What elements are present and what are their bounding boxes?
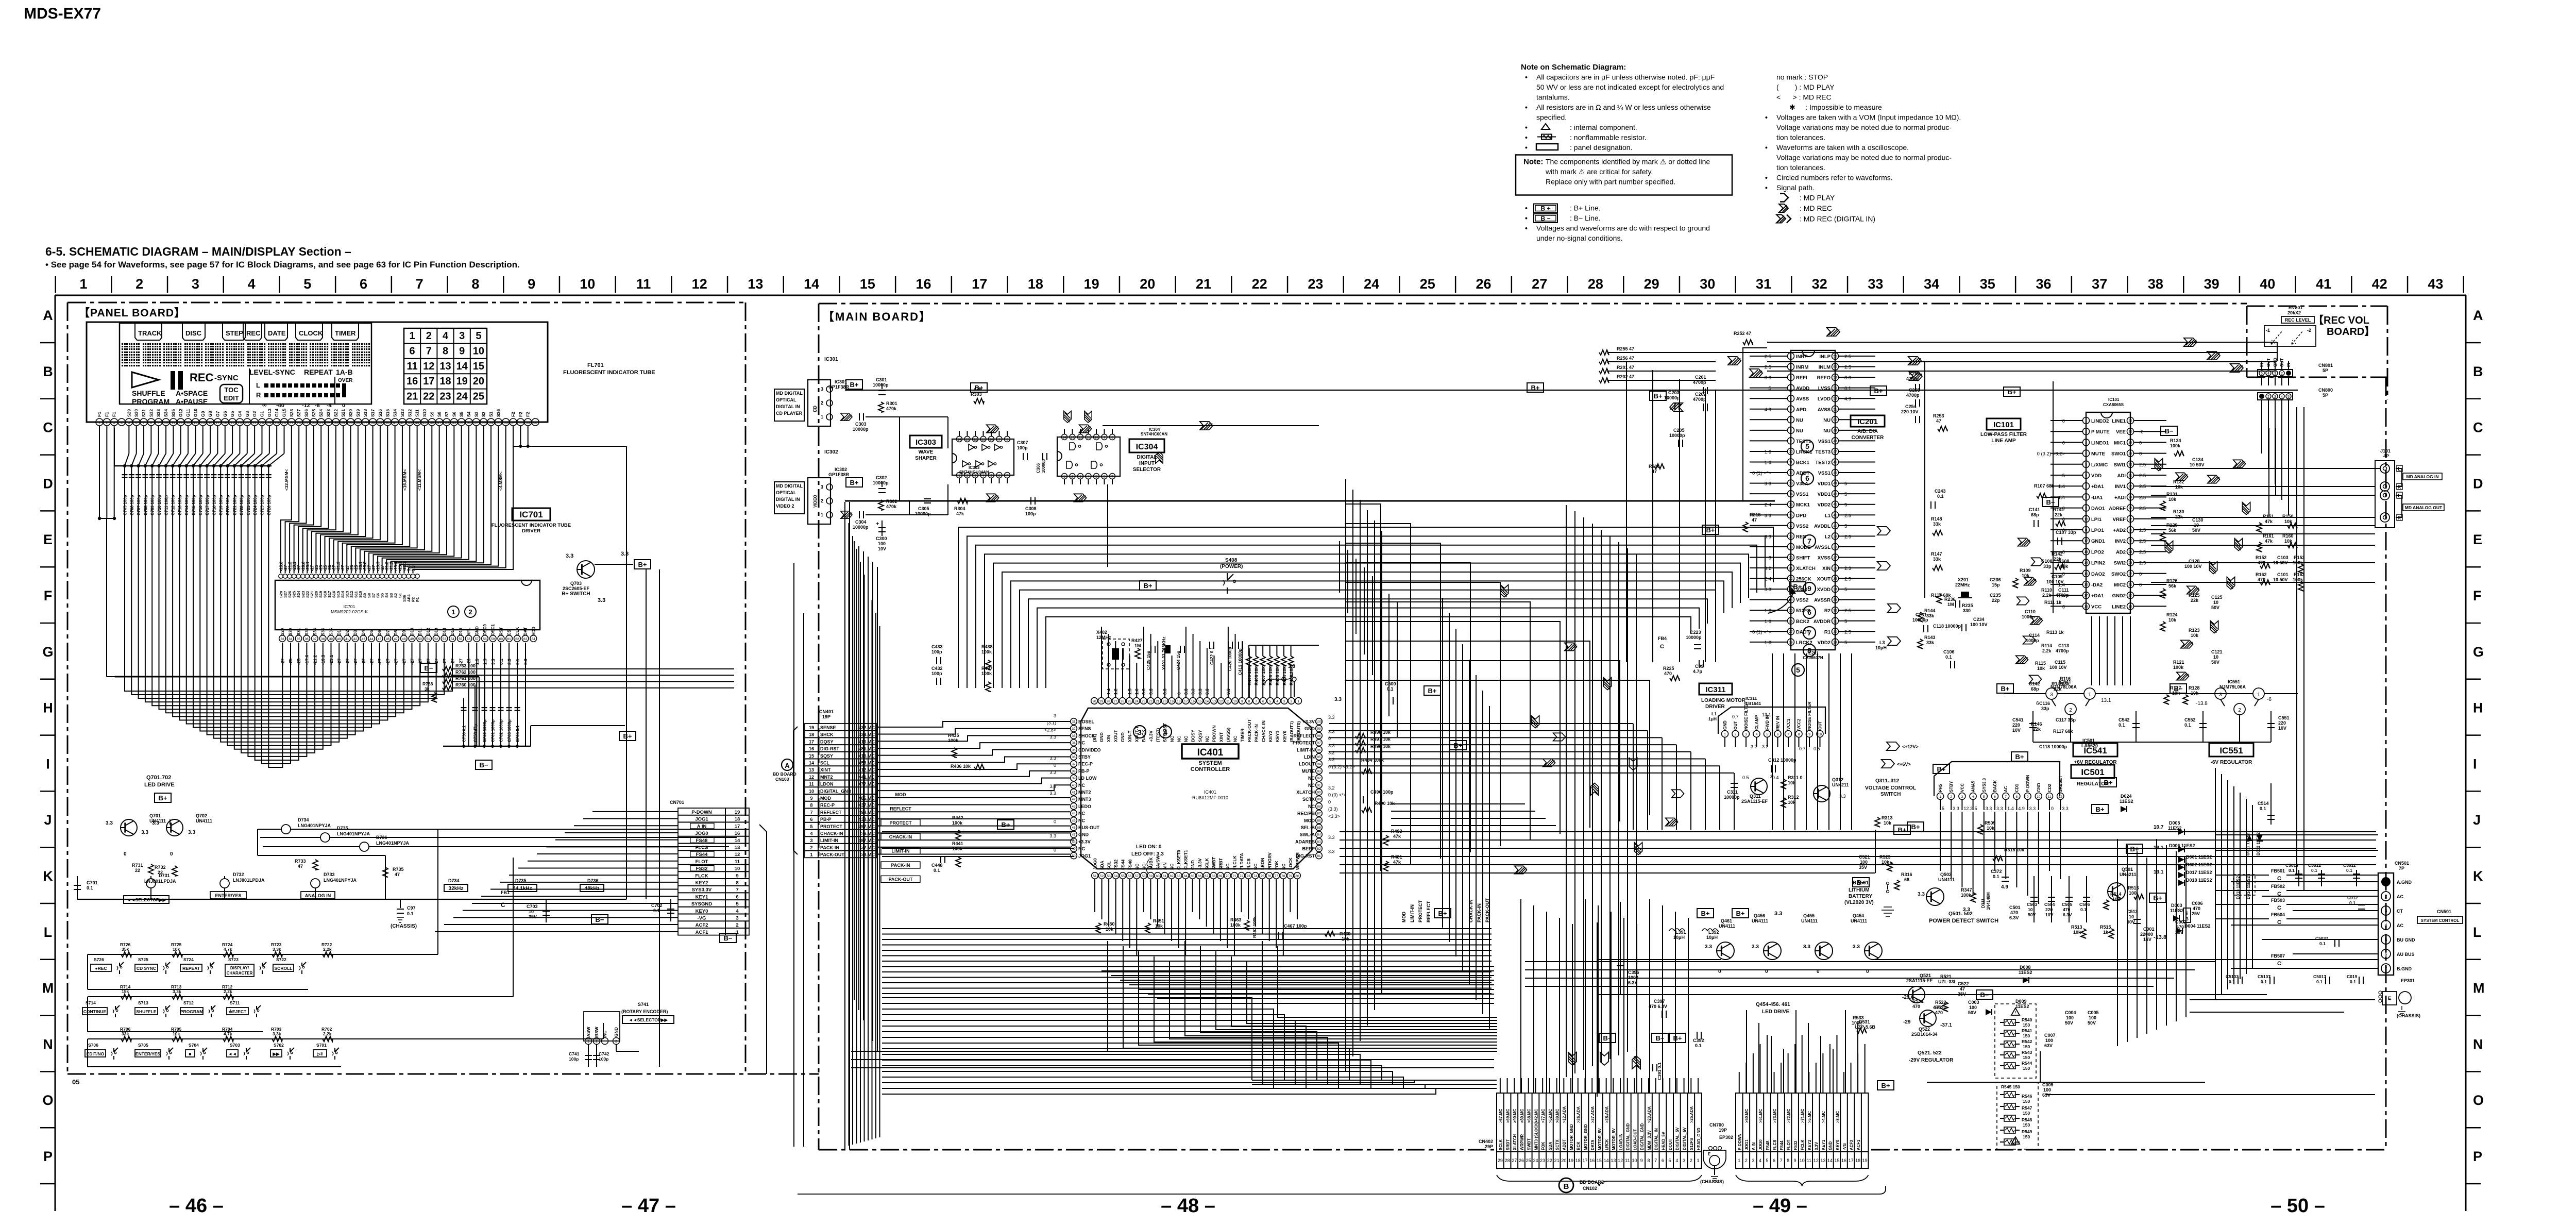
svg-text:C: C: [2277, 876, 2281, 882]
svg-text:3: 3: [1769, 555, 1771, 561]
svg-text:36: 36: [1072, 755, 1076, 759]
svg-text:S703: S703: [230, 1043, 240, 1048]
svg-text:>68.MC: >68.MC: [1527, 1109, 1532, 1123]
svg-text:>81.MC: >81.MC: [858, 746, 875, 751]
F2 filament wires: [513, 426, 514, 446]
svg-text:67: 67: [1205, 875, 1209, 878]
svg-text:5: 5: [2062, 473, 2065, 479]
svg-text:UN4111: UN4111: [1719, 923, 1735, 929]
svg-text:2.5: 2.5: [1844, 534, 1851, 540]
svg-text:SCTX: SCTX: [1555, 1139, 1560, 1150]
svg-text:– 46 –: – 46 –: [169, 1195, 224, 1217]
svg-text:IC302: IC302: [824, 449, 838, 455]
svg-text:CHACK-IN: CHACK-IN: [889, 834, 912, 839]
IC401 right pins 100-81: [1316, 718, 1323, 725]
svg-text:K: K: [2473, 868, 2483, 884]
svg-text:6: 6: [1807, 608, 1811, 616]
svg-text:6: 6: [410, 345, 415, 357]
resistor R723: [272, 952, 282, 957]
svg-text:10: 10: [2213, 600, 2218, 605]
svg-text:IC541: IC541: [2059, 679, 2071, 684]
IC201 A/D D/A converter body: [1791, 350, 1835, 650]
svg-text:12: 12: [1079, 436, 1082, 440]
B+ arrow: [1768, 591, 1794, 613]
svg-text:BD BOARD: BD BOARD: [773, 771, 796, 777]
svg-text:15: 15: [860, 276, 875, 292]
svg-text:53: 53: [1833, 387, 1837, 390]
svg-text:3k: 3k: [425, 686, 430, 692]
svg-text:0: 0: [124, 851, 127, 857]
svg-text:C742: C742: [599, 1051, 609, 1056]
svg-text:38: 38: [2148, 276, 2163, 292]
svg-text:23: 23: [1540, 1158, 1545, 1163]
svg-text:3: 3: [821, 387, 823, 392]
svg-text:27: 27: [1512, 1158, 1517, 1163]
svg-text:0.1: 0.1: [2261, 979, 2267, 984]
svg-text:FB4: FB4: [1658, 636, 1667, 641]
svg-text:100p: 100p: [1025, 511, 1036, 516]
svg-text:16: 16: [916, 276, 931, 292]
svg-text:LDOUT: LDOUT: [1299, 762, 1315, 767]
svg-text:60: 60: [533, 422, 537, 425]
svg-text:G13: G13: [267, 409, 272, 417]
svg-text:FLUORESCENT INDICATOR TUBE: FLUORESCENT INDICATOR TUBE: [563, 370, 655, 376]
svg-text:2.2k: 2.2k: [224, 989, 232, 994]
svg-text:KEY1: KEY1: [696, 894, 709, 900]
svg-text:•: •: [1765, 174, 1768, 182]
panel right-side vertical bus: [626, 563, 627, 899]
svg-text:AVDDR: AVDDR: [1814, 619, 1831, 625]
svg-text:10k: 10k: [1884, 820, 1892, 826]
LED D735 44.1kHz: [320, 833, 330, 842]
svg-text:9: 9: [158, 422, 160, 425]
svg-text:B+: B+: [1911, 823, 1920, 831]
safety note box: [1516, 155, 1732, 195]
svg-text:C303: C303: [855, 422, 867, 427]
svg-text:8: 8: [2016, 795, 2018, 799]
svg-text:DIGITAL_5V: DIGITAL_5V: [1682, 1127, 1687, 1150]
svg-text:0: 0: [2139, 440, 2142, 446]
svg-text:LINE2: LINE2: [2112, 604, 2126, 610]
nonflammable resistor R542: [2004, 1041, 2015, 1047]
svg-text:MSM9202-02GS-K: MSM9202-02GS-K: [331, 609, 368, 614]
svg-text:R541: R541: [2022, 1028, 2032, 1033]
svg-text:XIN: XIN: [1822, 566, 1831, 572]
svg-text:470k: 470k: [886, 406, 897, 411]
svg-text:【REC VOL: 【REC VOL: [2313, 314, 2369, 326]
svg-text:4: 4: [443, 330, 449, 342]
svg-text:2.5: 2.5: [2139, 528, 2146, 533]
svg-text:NC: NC: [1141, 864, 1146, 870]
svg-text:33k: 33k: [1933, 522, 1941, 527]
svg-text:15p: 15p: [1992, 582, 2000, 587]
svg-text:Q522: Q522: [1919, 1027, 1930, 1032]
transistor Q703 B+ switch: [577, 561, 595, 578]
svg-text:0: 0: [2062, 440, 2065, 446]
svg-text:SA/SW: SA/SW: [1155, 855, 1160, 870]
svg-text:BOSEL: BOSEL: [1078, 719, 1095, 725]
svg-text:42: 42: [353, 637, 358, 641]
svg-text:8: 8: [1787, 1158, 1789, 1163]
svg-text:35: 35: [297, 637, 301, 641]
svg-text:-37.1: -37.1: [1940, 1022, 1952, 1028]
svg-text:Waveforms are taken with a osc: Waveforms are taken with a oscilloscope.: [1776, 143, 1909, 152]
svg-text:R124: R124: [2166, 612, 2178, 617]
svg-text:15: 15: [809, 753, 814, 759]
IC401 system controller body: [1081, 708, 1312, 869]
svg-text:48kHz: 48kHz: [585, 886, 600, 892]
svg-text:+3.3V: +3.3V: [1078, 839, 1091, 844]
svg-text:74: 74: [1253, 875, 1258, 878]
svg-text:C003: C003: [1968, 1000, 1979, 1005]
B+ box IC302: [846, 478, 862, 487]
svg-text:C118 10000p: C118 10000p: [1933, 624, 1961, 629]
svg-text:JOG0: JOG0: [1093, 858, 1098, 870]
svg-text:19: 19: [735, 810, 740, 815]
power rail rows K-L right half: [1525, 961, 2215, 962]
svg-text:5: 5: [1844, 524, 1847, 529]
svg-text:SHAPER: SHAPER: [915, 456, 937, 461]
svg-text:13: 13: [186, 422, 190, 425]
svg-text:DIGITAL IN: DIGITAL IN: [776, 497, 800, 502]
svg-text:12: 12: [1219, 700, 1223, 703]
svg-text:LA5620: LA5620: [2081, 743, 2098, 748]
svg-text:XVSS: XVSS: [1818, 555, 1831, 561]
svg-text:C724 100p: C724 100p: [253, 495, 258, 515]
svg-text:LNG401NPYJA: LNG401NPYJA: [337, 831, 370, 836]
svg-text:IC701: IC701: [344, 604, 355, 609]
svg-text:B+: B+: [2130, 845, 2139, 853]
svg-text:7: 7: [1654, 1158, 1657, 1163]
svg-text:13: 13: [1789, 482, 1793, 485]
svg-text:BOARD】: BOARD】: [2327, 326, 2375, 338]
svg-text:50V: 50V: [2211, 660, 2219, 665]
svg-text:-27: -27: [450, 658, 455, 665]
capacitor C719 100p: [219, 464, 222, 467]
svg-text:35V: 35V: [529, 914, 537, 919]
svg-text:S723: S723: [228, 957, 239, 962]
svg-text:FB502: FB502: [2271, 884, 2285, 889]
svg-text:FS48: FS48: [1766, 1140, 1770, 1150]
svg-text:S35: S35: [171, 409, 176, 417]
svg-text:10000p: 10000p: [1669, 433, 1685, 438]
svg-text:<4.MSM<: <4.MSM<: [498, 472, 503, 491]
svg-text:-25: -25: [288, 658, 293, 665]
svg-text:5P: 5P: [2323, 368, 2328, 373]
svg-text:!: !: [2015, 1011, 2016, 1015]
svg-text:CD PLAYER: CD PLAYER: [776, 411, 803, 416]
resistor R705: [172, 1036, 182, 1042]
svg-text:IC551: IC551: [2228, 679, 2240, 684]
svg-text:MD DIGITAL: MD DIGITAL: [776, 391, 803, 396]
svg-text:J: J: [2473, 812, 2481, 828]
svg-text:100: 100: [2089, 1015, 2096, 1020]
svg-text:+3.3V: +3.3V: [1197, 858, 1202, 870]
svg-text:-13.8: -13.8: [2196, 701, 2208, 707]
svg-text:C: C: [2277, 961, 2281, 967]
svg-text:FCLK: FCLK: [1801, 1139, 1805, 1150]
svg-text:54: 54: [451, 637, 455, 641]
svg-text:G2: G2: [252, 411, 257, 417]
svg-text:50: 50: [418, 637, 422, 641]
svg-text:B +: B +: [1540, 205, 1550, 212]
wires IC304 to right: [1103, 425, 1319, 426]
svg-text:C716 100p: C716 100p: [198, 495, 203, 515]
svg-text:45: 45: [1833, 472, 1837, 475]
svg-text:CN701: CN701: [670, 800, 684, 805]
svg-text:FS48: FS48: [1127, 859, 1132, 870]
svg-text:-27: -27: [401, 658, 406, 665]
svg-text:R758: R758: [422, 681, 433, 686]
svg-text:!: !: [2015, 1139, 2016, 1144]
+12V +6V arrows: [1887, 742, 1900, 750]
svg-text:LINE AMP: LINE AMP: [1991, 438, 2016, 444]
svg-text:3: 3: [821, 484, 823, 490]
svg-text:100: 100: [2045, 1038, 2053, 1043]
svg-text:IC302: IC302: [835, 467, 847, 472]
svg-text:C205: C205: [1673, 428, 1685, 433]
svg-text:17: 17: [972, 276, 987, 292]
svg-text:AUBK: AUBK: [1148, 857, 1154, 870]
svg-text:PB-P: PB-P: [1078, 768, 1090, 774]
svg-text:13: 13: [1611, 1158, 1616, 1163]
svg-text:C717 100p: C717 100p: [205, 495, 210, 515]
svg-text:E: E: [2473, 532, 2482, 547]
svg-text:3.2: 3.2: [1328, 757, 1335, 762]
svg-text:R143: R143: [1924, 635, 1936, 640]
svg-text:MD DIGITAL: MD DIGITAL: [776, 483, 803, 489]
svg-text:17: 17: [1184, 700, 1188, 703]
svg-text:A.GND: A.GND: [2397, 880, 2412, 885]
svg-text:PBOWN: PBOWN: [1212, 725, 1217, 742]
svg-text:R114: R114: [2041, 643, 2052, 648]
svg-text:B+: B+: [2096, 805, 2105, 813]
svg-text:25: 25: [473, 391, 484, 402]
svg-text:R732: R732: [155, 865, 166, 870]
svg-text:LOCK: LOCK: [1288, 857, 1293, 870]
LED D736 48kHz: [360, 842, 369, 851]
svg-text:4.7p: 4.7p: [1693, 669, 1703, 674]
svg-text:VCC1: VCC1: [1786, 718, 1791, 730]
svg-text:C741: C741: [569, 1051, 580, 1056]
svg-text:B+: B+: [850, 381, 859, 389]
svg-text:OPTICAL: OPTICAL: [776, 490, 796, 495]
svg-text:C113: C113: [2058, 643, 2069, 648]
svg-text:LVDD: LVDD: [1818, 396, 1831, 402]
nested corners right of IC401: [1346, 504, 1381, 871]
svg-text:C106: C106: [1943, 649, 1955, 654]
svg-text:0: 0: [1328, 799, 1331, 804]
svg-text:•: •: [1765, 143, 1768, 152]
svg-text:C712 100p: C712 100p: [171, 495, 176, 515]
svg-text:R144: R144: [1924, 608, 1936, 613]
svg-text:CLK: CLK: [515, 627, 520, 635]
svg-text:9: 9: [1807, 584, 1811, 593]
svg-text:•: •: [1525, 123, 1528, 131]
svg-text:•: •: [1525, 214, 1528, 222]
svg-text:•: •: [1525, 224, 1528, 232]
svg-text:REV IN: REV IN: [1776, 716, 1781, 730]
svg-text:VDD2: VDD2: [1818, 640, 1831, 646]
svg-text:C391 0.1: C391 0.1: [1657, 1062, 1662, 1080]
svg-text:10000p: 10000p: [1724, 795, 1740, 800]
switch row 2 resistor rail: [88, 996, 244, 997]
svg-text:2: 2: [106, 422, 108, 425]
svg-text:3.3: 3.3: [1288, 664, 1295, 669]
svg-text:SWO1: SWO1: [2111, 451, 2126, 457]
svg-text:2.5: 2.5: [2139, 484, 2146, 490]
svg-text:0.4: 0.4: [1772, 775, 1779, 780]
display tube pin row 1-60: [96, 418, 103, 426]
svg-text:11: 11: [2048, 795, 2052, 799]
svg-text:R509: R509: [1985, 820, 1996, 826]
svg-text:1000p: 1000p: [2026, 638, 2039, 643]
svg-text:17: 17: [2084, 594, 2088, 598]
svg-text:SYSGND: SYSGND: [691, 901, 712, 907]
svg-text:R463: R463: [1230, 917, 1242, 922]
svg-text:D6: D6: [378, 630, 382, 635]
R303: [974, 398, 984, 404]
svg-text:0.1: 0.1: [2289, 868, 2295, 873]
svg-text:10: 10: [473, 345, 484, 357]
svg-text:33: 33: [334, 422, 338, 425]
svg-text:12: 12: [1814, 1158, 1819, 1163]
svg-text:DRIVER: DRIVER: [522, 528, 540, 534]
svg-text:tion tolerances.: tion tolerances.: [1776, 163, 1825, 172]
svg-text:C392: C392: [1693, 1038, 1704, 1043]
svg-text:99: 99: [1317, 727, 1321, 731]
svg-text:22p: 22p: [1992, 598, 2000, 603]
svg-text:2: 2: [2267, 395, 2269, 399]
svg-text:1.6: 1.6: [1765, 449, 1771, 455]
svg-text:48: 48: [1833, 440, 1837, 443]
svg-text:-13.8: -13.8: [2154, 934, 2166, 941]
svg-text:LINEO1: LINEO1: [2091, 440, 2109, 446]
svg-text:100k: 100k: [2173, 665, 2184, 670]
svg-text:D733: D733: [324, 872, 335, 877]
svg-text:220: 220: [2045, 907, 2053, 912]
svg-text:REC-P: REC-P: [1078, 762, 1093, 767]
svg-text:23: 23: [1308, 276, 1323, 292]
svg-text:11: 11: [1625, 1158, 1630, 1163]
svg-text:37: 37: [363, 422, 367, 425]
svg-text:MUTE: MUTE: [1302, 768, 1315, 774]
svg-text:55: 55: [459, 637, 463, 641]
svg-text:50V: 50V: [2028, 912, 2036, 917]
svg-text:C130: C130: [2192, 517, 2204, 523]
safety resistor block 1: [1995, 1004, 2036, 1078]
svg-text:0.1: 0.1: [2350, 979, 2356, 984]
svg-text:S17: S17: [370, 409, 376, 417]
svg-text:NOISE FILTER: NOISE FILTER: [1744, 701, 1749, 730]
svg-text:D009: D009: [2015, 999, 2027, 1004]
svg-text:0.1: 0.1: [1844, 386, 1851, 392]
svg-text:5: 5: [303, 276, 311, 292]
svg-text:R132: R132: [2173, 479, 2184, 484]
svg-text:C019: C019: [2347, 974, 2358, 979]
wires CN401 to IC401: [877, 727, 922, 728]
svg-text:100k: 100k: [952, 820, 963, 826]
svg-text:1: 1: [736, 930, 739, 935]
svg-text:19: 19: [1862, 1158, 1868, 1163]
svg-text:51: 51: [426, 637, 430, 641]
svg-text:FLCLK: FLCLK: [1232, 855, 1238, 870]
capacitor C715 100p: [192, 464, 195, 467]
svg-text:27: 27: [2128, 517, 2132, 521]
IC201 surrounding wiring box: [1743, 348, 1767, 501]
IC541 +6V regulator: [1997, 684, 2013, 693]
svg-text:30: 30: [2128, 485, 2132, 489]
svg-text:SCLK: SCLK: [1499, 1139, 1503, 1150]
svg-text:CD/VIDEO: CD/VIDEO: [1078, 747, 1101, 752]
svg-text:: MD REC: : MD REC: [1800, 204, 1832, 212]
svg-text:PACK-OUT: PACK-OUT: [889, 877, 913, 882]
svg-text:NC: NC: [1253, 864, 1258, 870]
svg-text:3.3: 3.3: [1328, 849, 1335, 854]
svg-text:C117 33p: C117 33p: [2056, 717, 2076, 723]
svg-text:KEY1: KEY1: [1275, 731, 1280, 742]
svg-text:OSC1: OSC1: [491, 624, 496, 635]
svg-text:CD1: CD1: [2014, 783, 2019, 792]
svg-text:5: 5: [1844, 619, 1847, 625]
svg-text:10V: 10V: [878, 546, 886, 551]
svg-text:R442: R442: [952, 815, 963, 820]
svg-text:2: 2: [2085, 430, 2087, 434]
svg-text:R256 47: R256 47: [1617, 356, 1634, 361]
svg-text:C760 1000p: C760 1000p: [483, 719, 487, 742]
svg-text:150: 150: [2023, 1122, 2030, 1128]
svg-text:4: 4: [1790, 387, 1792, 390]
IC551 to CN501 vertical bundle: [2117, 839, 2118, 1046]
svg-text:29: 29: [1498, 1158, 1503, 1163]
svg-text:29: 29: [2128, 496, 2132, 499]
svg-text:– 48 –: – 48 –: [1161, 1195, 1215, 1217]
svg-text:60: 60: [499, 637, 503, 641]
svg-text:: internal component.: : internal component.: [1570, 123, 1637, 131]
svg-text:G14: G14: [274, 409, 279, 417]
svg-text:2: 2: [821, 498, 823, 503]
svg-text:R215: R215: [1750, 512, 1761, 517]
svg-text:Q456: Q456: [1754, 913, 1765, 918]
svg-text:51: 51: [1093, 875, 1097, 878]
svg-text:62: 62: [515, 637, 519, 641]
C303: [859, 413, 860, 421]
track number grid: [404, 328, 487, 404]
B+ labels channel: [1140, 581, 1156, 590]
IC701 top pins 32-1: [279, 574, 283, 578]
capacitor C712 100p: [171, 464, 174, 467]
IC201 underside drops: [1772, 653, 1773, 830]
svg-text:R312: R312: [1788, 795, 1799, 800]
svg-text:LIMIT-IN: LIMIT-IN: [820, 838, 838, 843]
svg-text:C101: C101: [2277, 572, 2289, 577]
svg-text:50V: 50V: [2065, 1020, 2073, 1026]
svg-text:6: 6: [2384, 952, 2387, 957]
svg-text:P: P: [2473, 1149, 2482, 1164]
svg-text:C705 100p: C705 100p: [123, 495, 128, 515]
svg-text:0: 0: [1328, 736, 1331, 741]
svg-text:10000p: 10000p: [915, 511, 931, 516]
svg-text:S11: S11: [415, 409, 420, 417]
svg-text:C541: C541: [2012, 717, 2024, 723]
B- labels: [420, 663, 437, 673]
svg-text:C763 1000p: C763 1000p: [507, 719, 512, 742]
svg-text:7: 7: [1807, 537, 1811, 545]
svg-text:2: 2: [736, 922, 738, 928]
svg-text:220 10V: 220 10V: [1901, 409, 1919, 414]
svg-text:XOUT: XOUT: [1817, 577, 1831, 582]
svg-text:470: 470: [1935, 1010, 1943, 1015]
